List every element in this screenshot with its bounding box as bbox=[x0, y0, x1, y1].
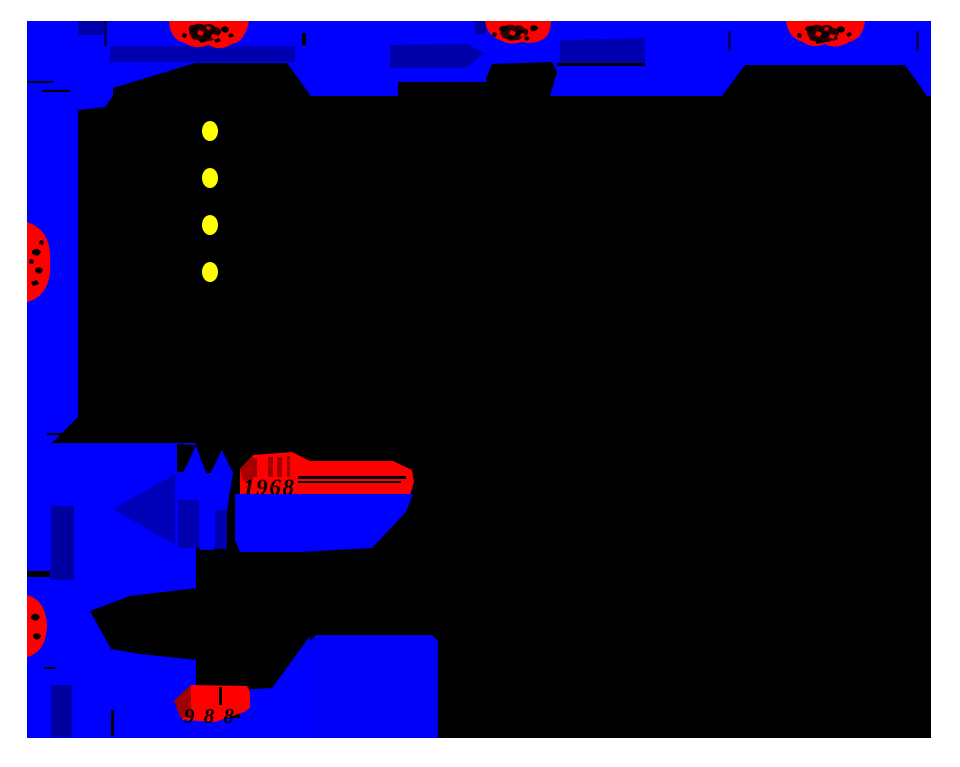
blue band under flag bbox=[235, 494, 413, 552]
blossom A black speckles bbox=[182, 25, 234, 43]
blossom C black speckles bbox=[797, 26, 852, 44]
blue slope to block bbox=[272, 636, 310, 738]
sky: black hexagon blob bbox=[486, 62, 557, 96]
navy rectangle upper bbox=[51, 506, 74, 580]
red blob lower-left edge bbox=[27, 595, 47, 657]
sky: black trapezoid right bbox=[722, 65, 927, 96]
column thin black artifact line 2 bbox=[42, 90, 70, 92]
yellow dot 1 bbox=[202, 121, 218, 141]
sky: blue wedge under slope bbox=[78, 96, 113, 110]
blossom A dark center patch bbox=[189, 24, 221, 43]
yellow dot 2 bbox=[202, 168, 218, 188]
blue left column bbox=[27, 21, 78, 443]
svg-text:988: 988 bbox=[184, 704, 235, 728]
thin black tick above panel bbox=[47, 433, 65, 435]
yellow dot 3 bbox=[202, 215, 218, 235]
bottom band maroon left end bbox=[174, 685, 191, 718]
sky: navy wedge right-center bbox=[390, 44, 484, 68]
blue strip under red band bbox=[172, 718, 244, 738]
red blossom B top-center bbox=[485, 21, 551, 44]
red half-disc on left edge bbox=[27, 222, 50, 302]
blue strip bottom center-left bbox=[240, 688, 272, 738]
black claw (sickle) bbox=[90, 585, 245, 688]
bowtie navy column left bbox=[178, 500, 199, 548]
bowtie blue arrow down bbox=[184, 473, 233, 550]
blossom B black speckles bbox=[492, 25, 538, 41]
flag dark red stripes bbox=[252, 456, 290, 477]
red blossom A top-left bbox=[169, 21, 249, 48]
panel black notch at top right bbox=[177, 444, 196, 472]
sky: black region under right blue block bbox=[398, 82, 500, 96]
bowtie navy column right bbox=[215, 510, 227, 549]
blue bottom block bbox=[310, 635, 438, 738]
blossom B dark center patch bbox=[501, 25, 529, 41]
thin black vertical mark bbox=[111, 710, 114, 736]
flag black line 1 bbox=[298, 476, 406, 479]
half-disc black speckles bbox=[29, 240, 44, 286]
sky: dark vertical line bbox=[104, 21, 107, 46]
red blossom C top-right bbox=[786, 21, 865, 47]
sky: dark dash left of trapezoid bbox=[728, 31, 731, 51]
sky: navy band left bbox=[110, 46, 295, 62]
flag black line 2 bbox=[298, 481, 401, 483]
sky: navy patch center bbox=[560, 38, 645, 65]
navy rectangle lower bbox=[51, 685, 72, 737]
yellow dot 4 bbox=[202, 262, 218, 282]
bottom red band bbox=[174, 685, 250, 722]
bottom band dark line bbox=[219, 687, 222, 705]
column thin black artifact line bbox=[27, 81, 53, 83]
thin black tick left bbox=[44, 667, 56, 669]
sky: navy block left of blossom B bbox=[475, 21, 486, 34]
sky: black dash in blue bbox=[302, 33, 306, 45]
thin black bar on panel bbox=[27, 571, 50, 577]
column black corner cut bbox=[52, 417, 78, 443]
bowtie blue peak 1 bbox=[183, 446, 208, 478]
sky: black slope left-center bbox=[113, 63, 311, 96]
sky: dark dash right of trapezoid bbox=[916, 31, 919, 51]
red flag band bbox=[240, 452, 414, 495]
sky: navy block top-left bbox=[62, 21, 105, 35]
sky: thin black line bbox=[557, 63, 645, 66]
lower blob black speckles bbox=[31, 614, 41, 640]
blue lower-left panel bbox=[27, 443, 196, 738]
blue sky band bbox=[27, 21, 931, 96]
blossom C dark center patch bbox=[807, 25, 839, 44]
bowtie blue peak 2 bbox=[208, 450, 233, 478]
navy left-pointing triangle bbox=[113, 474, 175, 545]
flag maroon left end bbox=[240, 455, 253, 481]
